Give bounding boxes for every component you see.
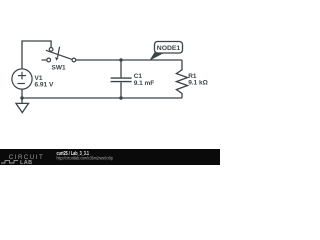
ground	[16, 98, 29, 113]
svg-text:9.1 mF: 9.1 mF	[134, 80, 155, 87]
junction at V1/ground on bottom rail	[20, 96, 23, 99]
wire V1 bottom lead	[21, 90, 23, 99]
voltage source V1	[12, 69, 32, 89]
svg-text:SW1: SW1	[52, 65, 66, 72]
wire V1 top lead	[22, 41, 51, 69]
switch SW1	[42, 47, 76, 62]
svg-text:9.1 kΩ: 9.1 kΩ	[188, 79, 208, 86]
svg-text:NODE1: NODE1	[157, 45, 181, 52]
wire bottom rail	[22, 97, 182, 99]
svg-text:http://circuitlab.com/c36m2rws: http://circuitlab.com/c36m2rws0cr9p	[57, 156, 114, 161]
svg-text:6.91 V: 6.91 V	[35, 81, 54, 88]
capacitor C1	[111, 60, 132, 98]
footer bar	[0, 149, 220, 165]
junction C1 top on NODE1 rail	[119, 58, 122, 61]
footer logo CircuitLab	[1, 154, 43, 166]
junction C1 bottom on bottom rail	[119, 96, 122, 99]
svg-text:LAB: LAB	[20, 160, 33, 165]
resistor R1	[176, 60, 187, 98]
wire top rail	[76, 59, 182, 61]
node NODE1 flag	[149, 42, 182, 61]
